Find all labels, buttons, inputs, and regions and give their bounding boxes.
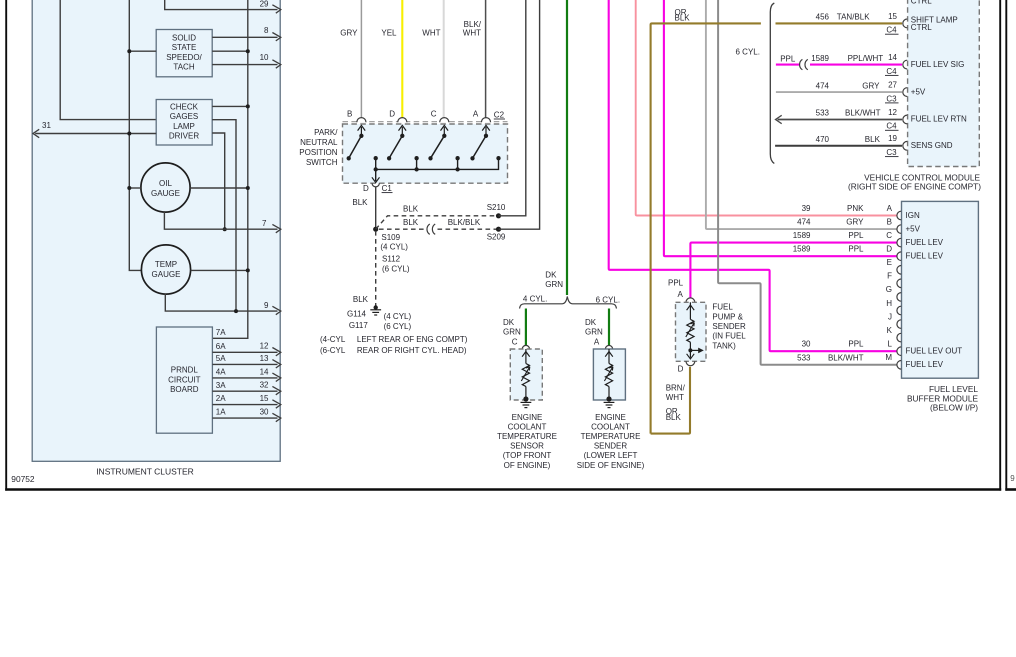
svg-text:L: L bbox=[888, 340, 893, 349]
svg-text:90752: 90752 bbox=[11, 474, 35, 484]
svg-text:H: H bbox=[886, 299, 892, 308]
wire PPL 1589 main riser to fuel pump and buffer pin L bbox=[609, 0, 898, 351]
svg-text:LEFT REAR OF ENG COMPT): LEFT REAR OF ENG COMPT) bbox=[357, 335, 468, 344]
svg-text:TACH: TACH bbox=[173, 62, 194, 71]
sender internal ground dot bbox=[606, 396, 611, 401]
connector C1 bump bbox=[372, 183, 379, 187]
svg-text:1589: 1589 bbox=[793, 231, 811, 240]
svg-text:6 CYL.: 6 CYL. bbox=[596, 296, 620, 305]
svg-text:BLK: BLK bbox=[865, 135, 881, 144]
svg-text:FUEL: FUEL bbox=[712, 303, 733, 312]
svg-text:C2: C2 bbox=[494, 111, 505, 120]
fuel pump pin D bump bbox=[686, 361, 695, 365]
svg-text:M: M bbox=[885, 353, 892, 362]
svg-text:A: A bbox=[678, 290, 684, 299]
svg-text:10: 10 bbox=[260, 53, 269, 62]
svg-text:B: B bbox=[347, 110, 352, 119]
svg-text:32: 32 bbox=[260, 381, 269, 390]
wire: check gages right y=119.7 down x=236 bbox=[212, 120, 236, 311]
switch common bus bbox=[376, 158, 499, 169]
wire: speedo pin 10 bbox=[212, 64, 277, 66]
svg-text:S210: S210 bbox=[487, 203, 506, 212]
splice S210 bbox=[496, 213, 501, 218]
buffer module pin F bump bbox=[897, 279, 901, 288]
wire: oil gauge right to bus x=247.8 bbox=[190, 187, 248, 189]
svg-text:30: 30 bbox=[802, 340, 811, 349]
svg-text:D: D bbox=[886, 245, 892, 254]
sensor internal ground dot bbox=[523, 396, 528, 401]
svg-text:S209: S209 bbox=[487, 233, 506, 242]
svg-text:WHT: WHT bbox=[463, 28, 481, 37]
svg-text:C: C bbox=[431, 110, 437, 119]
svg-text:CHECK: CHECK bbox=[170, 103, 199, 112]
6-cyl option bracket bbox=[770, 3, 774, 164]
wire DK GRN 4cyl branch bbox=[525, 309, 527, 347]
svg-text:ENGINE: ENGINE bbox=[512, 413, 543, 422]
svg-text:GRY: GRY bbox=[846, 218, 864, 227]
svg-text:C4: C4 bbox=[886, 67, 897, 76]
svg-text:(6 CYL): (6 CYL) bbox=[382, 264, 410, 273]
svg-text:GAUGE: GAUGE bbox=[151, 189, 180, 198]
svg-text:3A: 3A bbox=[216, 381, 226, 390]
prndl pin 3A wire bbox=[212, 390, 277, 392]
switch 2 blade bbox=[389, 136, 402, 159]
svg-text:FUEL LEV: FUEL LEV bbox=[906, 252, 944, 261]
svg-text:456: 456 bbox=[816, 13, 830, 22]
fuel level buffer module box bbox=[902, 201, 979, 378]
svg-text:GAGES: GAGES bbox=[170, 112, 198, 121]
oil gauge circle bbox=[141, 163, 190, 212]
svg-text:470: 470 bbox=[816, 135, 830, 144]
wire: speedo pin 8 bbox=[212, 36, 277, 38]
svg-text:C: C bbox=[512, 338, 518, 347]
svg-text:30: 30 bbox=[260, 408, 269, 417]
wire PPL from riser joint to fuel pump pin A and buffer pin C bbox=[689, 244, 691, 298]
svg-text:4 CYL.: 4 CYL. bbox=[523, 295, 547, 304]
junction at bus x=247.8 / speedo bbox=[246, 49, 250, 53]
prndl circuit board box bbox=[156, 327, 212, 433]
prndl pin 4A wire bbox=[212, 377, 277, 379]
buffer module pin D bump bbox=[897, 252, 901, 261]
wire: cluster internal vertical bus x=60 to CHECK GAGES bbox=[60, 0, 156, 120]
junction at bus x=129 / speedo bbox=[127, 49, 131, 53]
svg-text:9: 9 bbox=[264, 301, 269, 310]
buffer module pin C bump bbox=[897, 238, 901, 247]
svg-text:SENSOR: SENSOR bbox=[510, 442, 544, 451]
svg-text:12: 12 bbox=[260, 342, 269, 351]
wire WHT from top to switch pin C bbox=[443, 0, 445, 119]
wire: check gages top right to bus x=247.8 bbox=[212, 105, 248, 107]
svg-text:K: K bbox=[887, 326, 893, 335]
svg-text:YEL: YEL bbox=[381, 28, 397, 37]
svg-text:C3: C3 bbox=[886, 148, 897, 157]
wire PPL 1589 from top to buffer pin D bbox=[664, 0, 898, 256]
svg-text:SIDE OF ENGINE): SIDE OF ENGINE) bbox=[577, 461, 645, 470]
svg-text:DK: DK bbox=[545, 271, 557, 280]
svg-text:PNK: PNK bbox=[847, 204, 864, 213]
svg-text:TEMPERATURE: TEMPERATURE bbox=[497, 432, 557, 441]
page 2 border frame (partial, next diagram) bbox=[1005, 0, 1007, 491]
pin 29 arrow bbox=[272, 5, 280, 13]
svg-text:S109: S109 bbox=[381, 233, 400, 242]
svg-text:PARK/: PARK/ bbox=[314, 128, 338, 137]
svg-text:C: C bbox=[886, 231, 892, 240]
sensor ground symbol bbox=[521, 401, 532, 403]
svg-text:14: 14 bbox=[888, 53, 897, 62]
svg-text:C1: C1 bbox=[382, 184, 393, 193]
svg-text:7A: 7A bbox=[216, 328, 226, 337]
svg-text:S112: S112 bbox=[382, 254, 401, 263]
svg-text:D: D bbox=[389, 110, 395, 119]
buffer module pin H bump bbox=[897, 306, 901, 315]
buffer module pin E bump bbox=[897, 266, 901, 275]
svg-text:TEMPERATURE: TEMPERATURE bbox=[581, 432, 641, 441]
svg-text:1589: 1589 bbox=[793, 245, 811, 254]
svg-text:533: 533 bbox=[797, 353, 811, 362]
VCM pin 12 bump bbox=[903, 115, 907, 124]
svg-text:CIRCUIT: CIRCUIT bbox=[168, 375, 201, 384]
engine coolant temperature sender box (solid) bbox=[593, 349, 625, 400]
svg-text:A: A bbox=[887, 204, 893, 213]
buffer module pin G bump bbox=[897, 293, 901, 302]
buffer module pin M bump bbox=[897, 361, 901, 370]
svg-text:FUEL LEV OUT: FUEL LEV OUT bbox=[906, 347, 963, 356]
svg-text:12: 12 bbox=[888, 108, 897, 117]
svg-text:SENDER: SENDER bbox=[594, 442, 628, 451]
svg-text:BLK/WHT: BLK/WHT bbox=[828, 353, 864, 362]
fuel pump sender resistor bbox=[689, 302, 691, 319]
wire BLK/WHT 533 to VCM pin 12 with off-page arrow bbox=[778, 119, 903, 121]
wire: cluster internal vertical bus x=129 bbox=[129, 0, 141, 270]
svg-text:PPL: PPL bbox=[848, 245, 864, 254]
svg-text:TAN/BLK: TAN/BLK bbox=[837, 13, 870, 22]
wire: oil gauge bottom to pin 7 bbox=[164, 212, 277, 229]
junction bus x=247.8 / temp gauge bbox=[246, 268, 250, 272]
svg-text:PPL/WHT: PPL/WHT bbox=[848, 54, 884, 63]
vehicle control module box (dashed) bbox=[908, 0, 980, 167]
svg-text:DRIVER: DRIVER bbox=[169, 131, 199, 140]
sender ground symbol bbox=[604, 401, 615, 403]
svg-text:4A: 4A bbox=[216, 368, 226, 377]
svg-text:GRN: GRN bbox=[585, 327, 603, 336]
wire DK GRN main from top bbox=[566, 0, 568, 295]
svg-text:533: 533 bbox=[816, 109, 830, 118]
switch pin bump 1 (C2) bbox=[357, 118, 366, 123]
4cyl/6cyl split brace bbox=[520, 297, 617, 309]
svg-text:FUEL LEV: FUEL LEV bbox=[906, 360, 944, 369]
svg-text:BLK/BLK: BLK/BLK bbox=[448, 218, 481, 227]
svg-text:A: A bbox=[473, 110, 479, 119]
switch 2 blade end contact bbox=[387, 156, 391, 160]
switch pin bump 3 (C2) bbox=[440, 118, 449, 123]
svg-text:BLK: BLK bbox=[675, 14, 691, 23]
page 1 border frame bbox=[5, 0, 7, 491]
prndl pin 1A wire bbox=[212, 417, 277, 419]
svg-text:(BELOW I/P): (BELOW I/P) bbox=[930, 403, 978, 413]
sensor resistor element bbox=[525, 349, 527, 364]
svg-text:8: 8 bbox=[264, 26, 269, 35]
svg-text:OIL: OIL bbox=[159, 179, 172, 188]
svg-text:G117: G117 bbox=[349, 321, 369, 330]
svg-text:C3: C3 bbox=[886, 94, 897, 103]
svg-text:5A: 5A bbox=[216, 354, 226, 363]
svg-text:15: 15 bbox=[260, 394, 269, 403]
prndl pin 2A wire bbox=[212, 404, 277, 406]
svg-text:+5V: +5V bbox=[911, 87, 926, 96]
switch 3 blade end contact bbox=[428, 156, 432, 160]
wire: temp gauge bottom to pin 9 bbox=[165, 294, 277, 312]
buffer module pin B bump bbox=[897, 225, 901, 234]
svg-text:OF ENGINE): OF ENGINE) bbox=[504, 461, 551, 470]
pin 10 arrow bbox=[272, 60, 280, 68]
dashed BLK wire S109 up-right to S210 bbox=[376, 216, 496, 229]
temp gauge circle bbox=[141, 245, 190, 294]
buffer module pin A bump bbox=[897, 211, 901, 220]
buffer module pin L bump bbox=[897, 347, 901, 356]
junction bus / output bbox=[374, 167, 378, 171]
svg-text:PPL: PPL bbox=[848, 231, 864, 240]
svg-text:DK: DK bbox=[585, 318, 597, 327]
switch 4 blade end contact bbox=[470, 156, 474, 160]
pin 8 arrow bbox=[272, 33, 280, 41]
wire: check gages right y=133 down x=224.7 bbox=[212, 133, 225, 229]
svg-text:(TOP FRONT: (TOP FRONT bbox=[503, 451, 552, 460]
switch common contact 1 bbox=[374, 156, 378, 160]
svg-text:BLK: BLK bbox=[353, 295, 369, 304]
svg-text:13: 13 bbox=[260, 354, 269, 363]
svg-text:LAMP: LAMP bbox=[173, 122, 195, 131]
svg-text:PPL: PPL bbox=[780, 55, 796, 64]
coolant temperature sender pin bump bbox=[605, 345, 612, 349]
switch 4 pole wire with up arrow bbox=[485, 127, 487, 136]
svg-text:WHT: WHT bbox=[666, 393, 684, 402]
svg-text:TANK): TANK) bbox=[712, 341, 736, 350]
wire: oil gauge left to bus x=129 bbox=[129, 187, 141, 189]
prndl pin 6A wire bbox=[212, 351, 277, 353]
svg-text:NEUTRAL: NEUTRAL bbox=[300, 138, 338, 147]
fuel pump wiper arrow right bbox=[690, 349, 699, 351]
wire YEL from top to switch pin D bbox=[401, 0, 403, 119]
VCM pin 14 bump bbox=[903, 60, 907, 69]
svg-text:C4: C4 bbox=[886, 122, 897, 131]
svg-text:TEMP: TEMP bbox=[155, 260, 177, 269]
dashed BLK wire S109 down to ground G114 bbox=[375, 231, 377, 307]
pin 9 arrow bbox=[272, 306, 280, 314]
wire TAN/BLK-or-BLK 456 net: VCM 15 to fuel pump pin D (olive) bbox=[651, 23, 761, 433]
svg-text:F: F bbox=[887, 272, 892, 281]
wire: speedo right to bus x=247.8 bbox=[212, 50, 248, 52]
VCM pin 15 bump bbox=[903, 19, 907, 28]
svg-text:BLK: BLK bbox=[352, 198, 368, 207]
svg-text:G114: G114 bbox=[347, 310, 367, 319]
wire BLK/WHT 533 riser to buffer pin M bbox=[718, 0, 897, 365]
wire PPL 1589 stub with inline connector to VCM pin 14 bbox=[776, 64, 800, 66]
wire BLK/WHT from top to switch pin A bbox=[485, 0, 487, 119]
svg-text:SENDER: SENDER bbox=[712, 322, 746, 331]
wire GRY 474 to VCM pin 27 bbox=[776, 91, 902, 93]
svg-text:39: 39 bbox=[802, 204, 811, 213]
svg-text:PUMP &: PUMP & bbox=[712, 312, 743, 321]
switch 3 pivot contact bbox=[442, 134, 446, 138]
wire: cluster internal vertical bus x=247.8 bbox=[212, 0, 248, 338]
instrument cluster box bbox=[32, 0, 280, 461]
switch 2 pole wire with up arrow bbox=[401, 127, 403, 136]
junction bus / contact 2 bbox=[414, 167, 418, 171]
svg-text:STATE: STATE bbox=[172, 43, 197, 52]
switch 1 blade bbox=[349, 136, 362, 159]
svg-text:(6-CYL: (6-CYL bbox=[320, 346, 346, 355]
stub common contact 3 to bus bbox=[457, 158, 459, 169]
svg-text:FUEL LEV: FUEL LEV bbox=[906, 238, 944, 247]
VCM pin 27 bump bbox=[903, 88, 907, 97]
svg-text:PPL: PPL bbox=[848, 340, 864, 349]
svg-text:6 CYL.: 6 CYL. bbox=[736, 48, 760, 57]
svg-text:BRN/: BRN/ bbox=[666, 384, 686, 393]
switch pin bump 4 (C2) bbox=[481, 118, 490, 123]
svg-text:1589: 1589 bbox=[811, 54, 829, 63]
wire: temp gauge right to bus x=247.8 bbox=[191, 269, 248, 271]
wire from S210 up to top bbox=[499, 0, 526, 216]
svg-text:(4-CYL: (4-CYL bbox=[320, 335, 346, 344]
svg-text:BLK: BLK bbox=[403, 218, 419, 227]
svg-text:19: 19 bbox=[888, 134, 897, 143]
svg-text:SWITCH: SWITCH bbox=[306, 158, 338, 167]
svg-text:14: 14 bbox=[260, 367, 269, 376]
svg-text:D: D bbox=[678, 365, 684, 374]
stub common contact 1 to bus bbox=[375, 158, 377, 169]
svg-text:REAR OF RIGHT CYL. HEAD): REAR OF RIGHT CYL. HEAD) bbox=[357, 346, 467, 355]
svg-text:BLK: BLK bbox=[666, 413, 682, 422]
svg-text:SPEEDO/: SPEEDO/ bbox=[166, 53, 202, 62]
svg-text:31: 31 bbox=[42, 121, 51, 130]
switch output wire down with arrow bbox=[375, 169, 377, 181]
junction bus / contact 3 bbox=[455, 167, 459, 171]
fuel pump variable arrow bbox=[686, 323, 695, 338]
wire GRY from top to switch pin B bbox=[360, 0, 362, 119]
fuel pump lower element with down arrow bbox=[689, 350, 691, 357]
switch 4 pivot contact bbox=[484, 134, 488, 138]
svg-text:C4: C4 bbox=[886, 26, 897, 35]
svg-text:GRY: GRY bbox=[862, 81, 880, 90]
svg-text:FUEL LEV RTN: FUEL LEV RTN bbox=[911, 115, 967, 124]
svg-text:E: E bbox=[887, 258, 892, 267]
switch common contact 4 bbox=[496, 156, 500, 160]
svg-text:(RIGHT SIDE OF ENGINE COMPT): (RIGHT SIDE OF ENGINE COMPT) bbox=[848, 182, 981, 192]
wire: speedo left to bus x=129 bbox=[129, 50, 156, 52]
prndl pin 5A wire bbox=[212, 363, 277, 365]
pin 31 arrow bbox=[33, 129, 39, 137]
svg-text:2A: 2A bbox=[216, 394, 226, 403]
junction bus x=247.8 / oil gauge bbox=[246, 186, 250, 190]
buffer module pin K bump bbox=[897, 333, 901, 342]
svg-text:G: G bbox=[886, 285, 892, 294]
switch 1 blade end contact bbox=[347, 156, 351, 160]
svg-text:BLK/WHT: BLK/WHT bbox=[845, 109, 881, 118]
svg-text:GRN: GRN bbox=[545, 280, 563, 289]
fuel pump & sender box (dashed) bbox=[676, 302, 707, 361]
svg-text:6A: 6A bbox=[216, 342, 226, 351]
svg-text:POSITION: POSITION bbox=[299, 148, 337, 157]
junction at bus x=129 / pin 31 wire bbox=[127, 132, 131, 136]
wire: pin 31 from check gages to left edge bbox=[35, 133, 156, 135]
VCM pin 19 bump bbox=[903, 141, 907, 150]
fuel pump wiper junction dot bbox=[688, 348, 692, 352]
svg-text:IGN: IGN bbox=[906, 211, 920, 220]
wire DK GRN 6cyl branch bbox=[608, 309, 610, 347]
ground G114/G117 bbox=[374, 305, 378, 309]
svg-text:COOLANT: COOLANT bbox=[591, 422, 630, 431]
wire GRY 474 riser to buffer pin B bbox=[706, 0, 898, 229]
buffer module pin J bump bbox=[897, 320, 901, 329]
svg-text:15: 15 bbox=[888, 12, 897, 21]
svg-text:474: 474 bbox=[816, 81, 830, 90]
solid state speedo/tach box bbox=[156, 30, 212, 77]
coolant temperature sensor pin bump bbox=[522, 345, 529, 349]
svg-text:PPL: PPL bbox=[668, 279, 684, 288]
switch common contact 2 bbox=[414, 156, 418, 160]
svg-text:BOARD: BOARD bbox=[170, 385, 199, 394]
svg-text:FUEL LEV SIG: FUEL LEV SIG bbox=[911, 60, 965, 69]
svg-text:(4 CYL): (4 CYL) bbox=[380, 243, 408, 252]
svg-text:COOLANT: COOLANT bbox=[508, 422, 547, 431]
wire BLK 470 to VCM pin 19 bbox=[775, 145, 902, 147]
svg-text:INSTRUMENT CLUSTER: INSTRUMENT CLUSTER bbox=[96, 466, 194, 476]
svg-text:474: 474 bbox=[797, 218, 811, 227]
fuel pump pin A bump bbox=[686, 298, 695, 302]
junction x=224.7 / pin 7 wire bbox=[223, 227, 227, 231]
svg-text:27: 27 bbox=[888, 81, 897, 90]
wire from S209 up to top bbox=[499, 0, 540, 229]
svg-text:9: 9 bbox=[1010, 474, 1015, 483]
sensor variable arrow bbox=[521, 367, 530, 381]
junction x=236 / pin 9 wire bbox=[234, 309, 238, 313]
svg-text:SOLID: SOLID bbox=[172, 34, 196, 43]
svg-text:(LOWER LEFT: (LOWER LEFT bbox=[584, 451, 638, 460]
switch 3 pole wire with up arrow bbox=[443, 127, 445, 136]
svg-text:(6 CYL): (6 CYL) bbox=[384, 322, 412, 331]
dashed BLK/BLK wire S109 to S209 with inline connector bbox=[379, 228, 427, 230]
switch common contact 3 bbox=[455, 156, 459, 160]
svg-text:CTRL: CTRL bbox=[911, 0, 932, 6]
switch 1 pivot contact bbox=[359, 134, 363, 138]
switch pin bump 2 (C2) bbox=[398, 118, 407, 123]
svg-text:+5V: +5V bbox=[906, 225, 921, 234]
sender resistor element bbox=[608, 349, 610, 364]
svg-text:B: B bbox=[887, 217, 892, 226]
connector C2 dashed line bbox=[343, 121, 508, 123]
svg-text:PRNDL: PRNDL bbox=[171, 366, 199, 375]
svg-text:7: 7 bbox=[262, 219, 267, 228]
svg-text:ENGINE: ENGINE bbox=[595, 413, 626, 422]
wire PNK 39 from top to buffer pin A bbox=[636, 0, 898, 216]
switch 3 blade bbox=[431, 136, 445, 159]
wire BLK from C1 to splice S109 bbox=[375, 187, 377, 228]
splice S209 bbox=[496, 227, 501, 232]
svg-text:GRN: GRN bbox=[503, 327, 521, 336]
junction bus x=129 / oil gauge bbox=[127, 186, 131, 190]
svg-text:(4 CYL): (4 CYL) bbox=[384, 312, 412, 321]
svg-text:A: A bbox=[594, 338, 600, 347]
pin 7 arrow bbox=[272, 224, 280, 232]
svg-text:29: 29 bbox=[260, 0, 269, 9]
svg-text:D: D bbox=[363, 184, 369, 193]
switch 1 pole wire with up arrow bbox=[360, 127, 362, 136]
switch 4 blade bbox=[473, 136, 487, 159]
svg-text:BLK: BLK bbox=[403, 205, 419, 214]
wire: pin 29 from fuse above bbox=[165, 0, 278, 10]
svg-text:GAUGE: GAUGE bbox=[152, 270, 181, 279]
svg-text:SENS GND: SENS GND bbox=[911, 141, 953, 150]
